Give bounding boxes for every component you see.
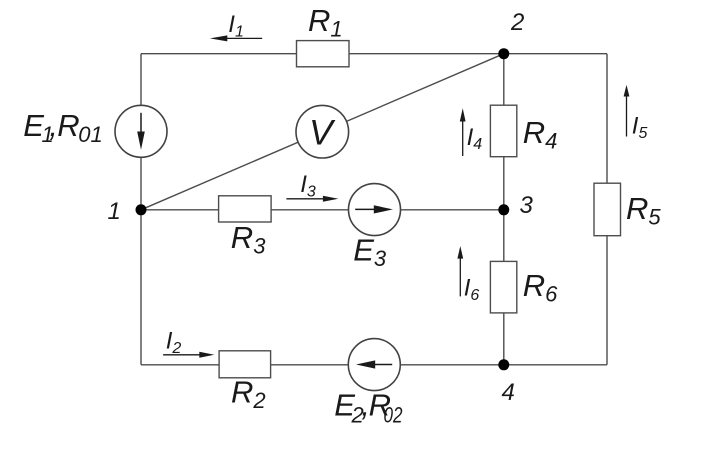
wire right vertical bbox=[606, 54, 608, 365]
node 3 junction dot bbox=[498, 204, 509, 215]
resistor R6 bbox=[490, 261, 516, 313]
node 4 junction dot bbox=[498, 359, 509, 370]
node 1 junction dot bbox=[136, 204, 147, 215]
source E1 arrow (down) bbox=[137, 113, 145, 150]
current arrow I5 (up) bbox=[624, 85, 630, 137]
current arrow I6 (up) bbox=[457, 246, 463, 296]
svg-text:1: 1 bbox=[108, 198, 121, 225]
wire middle vertical node2-node3-node4 bbox=[503, 54, 505, 365]
wire top (141,54)-(607,54) bbox=[141, 53, 607, 55]
voltmeter V circle bbox=[296, 105, 349, 158]
current arrow I2 (right) bbox=[163, 352, 214, 358]
node 2 junction dot bbox=[498, 48, 509, 59]
wire diagonal node1-node2 bbox=[141, 54, 504, 210]
source E3 circle bbox=[349, 184, 401, 236]
wire bottom bbox=[141, 364, 607, 366]
svg-text:2: 2 bbox=[510, 9, 524, 36]
source E2 arrow (left) bbox=[356, 360, 392, 368]
resistor R4 bbox=[490, 105, 516, 157]
source E3 arrow (right) bbox=[355, 205, 393, 213]
resistor R2 bbox=[219, 351, 271, 378]
wire left vertical bbox=[140, 54, 142, 365]
svg-text:V: V bbox=[309, 112, 336, 152]
wire middle horizontal node1-node3 bbox=[141, 209, 504, 211]
svg-text:01: 01 bbox=[78, 122, 102, 147]
svg-text:02: 02 bbox=[384, 402, 403, 427]
source E2,R02 circle bbox=[348, 339, 400, 391]
resistor R1 bbox=[297, 41, 350, 67]
svg-text:4: 4 bbox=[502, 379, 515, 406]
svg-text:R: R bbox=[57, 108, 79, 143]
current arrow I3 (right) bbox=[286, 196, 338, 202]
current arrow I1 (left) bbox=[210, 35, 262, 41]
svg-text:3: 3 bbox=[520, 192, 534, 219]
current arrow I4 (up) bbox=[460, 108, 466, 156]
source E1,R01 circle bbox=[115, 105, 167, 157]
resistor R3 bbox=[219, 196, 272, 222]
resistor R5 bbox=[594, 183, 621, 236]
